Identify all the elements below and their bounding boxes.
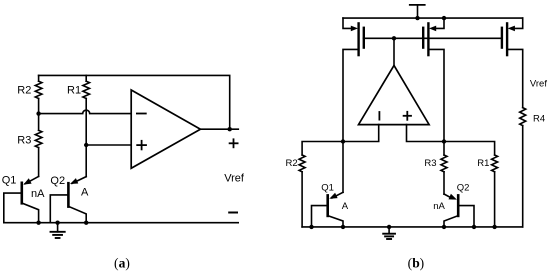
node Q1 collector (36, 221, 40, 225)
transistor Q2 (b) (444, 194, 474, 227)
svg-text:nA: nA (31, 188, 45, 200)
wire to R1 top (444, 142, 495, 156)
op-amp U1 minus sign (137, 113, 146, 115)
node Q2 collector (84, 221, 88, 225)
node Q1b collector (341, 225, 345, 229)
svg-text:nA: nA (433, 201, 445, 212)
plus terminal symbol (230, 139, 238, 147)
node minus input junction (341, 139, 345, 143)
transistor M3 (right PMOS) (502, 18, 523, 108)
wire to R2 top (302, 142, 343, 156)
node gate-output junction (392, 36, 396, 40)
ground (b) (383, 225, 395, 239)
node R1b bottom (492, 225, 496, 229)
svg-text:R2: R2 (286, 158, 298, 169)
wire plus-input row (86, 144, 131, 146)
node Q1b base (309, 225, 313, 229)
svg-text:A: A (81, 187, 89, 199)
op-amp U2 minus sign (rotated) (378, 112, 380, 120)
resistor R1 (83, 75, 90, 145)
transistor M1 (left PMOS) (343, 18, 364, 141)
wire bottom rail (a) (4, 222, 238, 224)
resistor R3 (b) (441, 142, 447, 195)
resistor R4 (520, 108, 526, 227)
svg-text:A: A (342, 201, 349, 212)
op-amp U2 (359, 65, 430, 124)
ground (a) (51, 221, 65, 239)
wire gate bus (364, 37, 503, 39)
svg-text:R2: R2 (17, 84, 31, 96)
svg-text:R3: R3 (17, 134, 31, 146)
minus terminal symbol (229, 212, 237, 214)
svg-text:Vref: Vref (530, 78, 547, 89)
node R1 bottom junction (84, 143, 88, 147)
node Q2b collector (442, 225, 446, 229)
wire U2 minus input lead (343, 125, 379, 142)
wire op-amp output to gates (393, 38, 395, 65)
wire bottom rail (b) (302, 226, 523, 228)
op-amp U2 plus sign (404, 112, 411, 120)
svg-text:R1: R1 (67, 84, 81, 96)
transistor Q2 (50, 145, 86, 223)
transistor M2 (middle PMOS) (423, 18, 444, 141)
svg-text:R4: R4 (533, 114, 545, 125)
node M2 source rail junction (442, 16, 446, 20)
resistor R1 (b) (492, 155, 498, 227)
wire top rail (b) (343, 17, 523, 19)
node R2-R3 junction (36, 111, 40, 115)
op-amp U1 (131, 90, 200, 168)
svg-text:Q2: Q2 (457, 183, 470, 194)
svg-text:b: b (412, 256, 420, 271)
wire top rail (a) (39, 75, 230, 129)
supply VDD T symbol (410, 5, 425, 18)
svg-text:): ) (125, 255, 129, 270)
node supply junction (415, 16, 419, 20)
resistor R2 (35, 75, 42, 113)
wire op-amp output (200, 128, 238, 130)
resistor R3 (35, 114, 42, 177)
node Q2b base (472, 225, 476, 229)
svg-text:R1: R1 (477, 158, 489, 169)
transistor Q1 (b) (312, 142, 344, 227)
node output junction (228, 127, 232, 131)
wire U2 plus input lead (407, 125, 445, 142)
svg-text:): ) (420, 256, 425, 271)
transistor Q1 (4, 176, 39, 222)
svg-text:Vref: Vref (224, 173, 245, 185)
svg-text:R3: R3 (424, 158, 436, 169)
node plus input junction (442, 139, 446, 143)
op-amp U1 plus sign (137, 141, 146, 150)
wire minus-input row with hop over R1 column (39, 110, 131, 113)
svg-text:Q2: Q2 (50, 175, 65, 187)
svg-text:Q1: Q1 (321, 182, 334, 193)
resistor R2 (b) (299, 155, 305, 227)
svg-text:Q1: Q1 (2, 174, 17, 186)
